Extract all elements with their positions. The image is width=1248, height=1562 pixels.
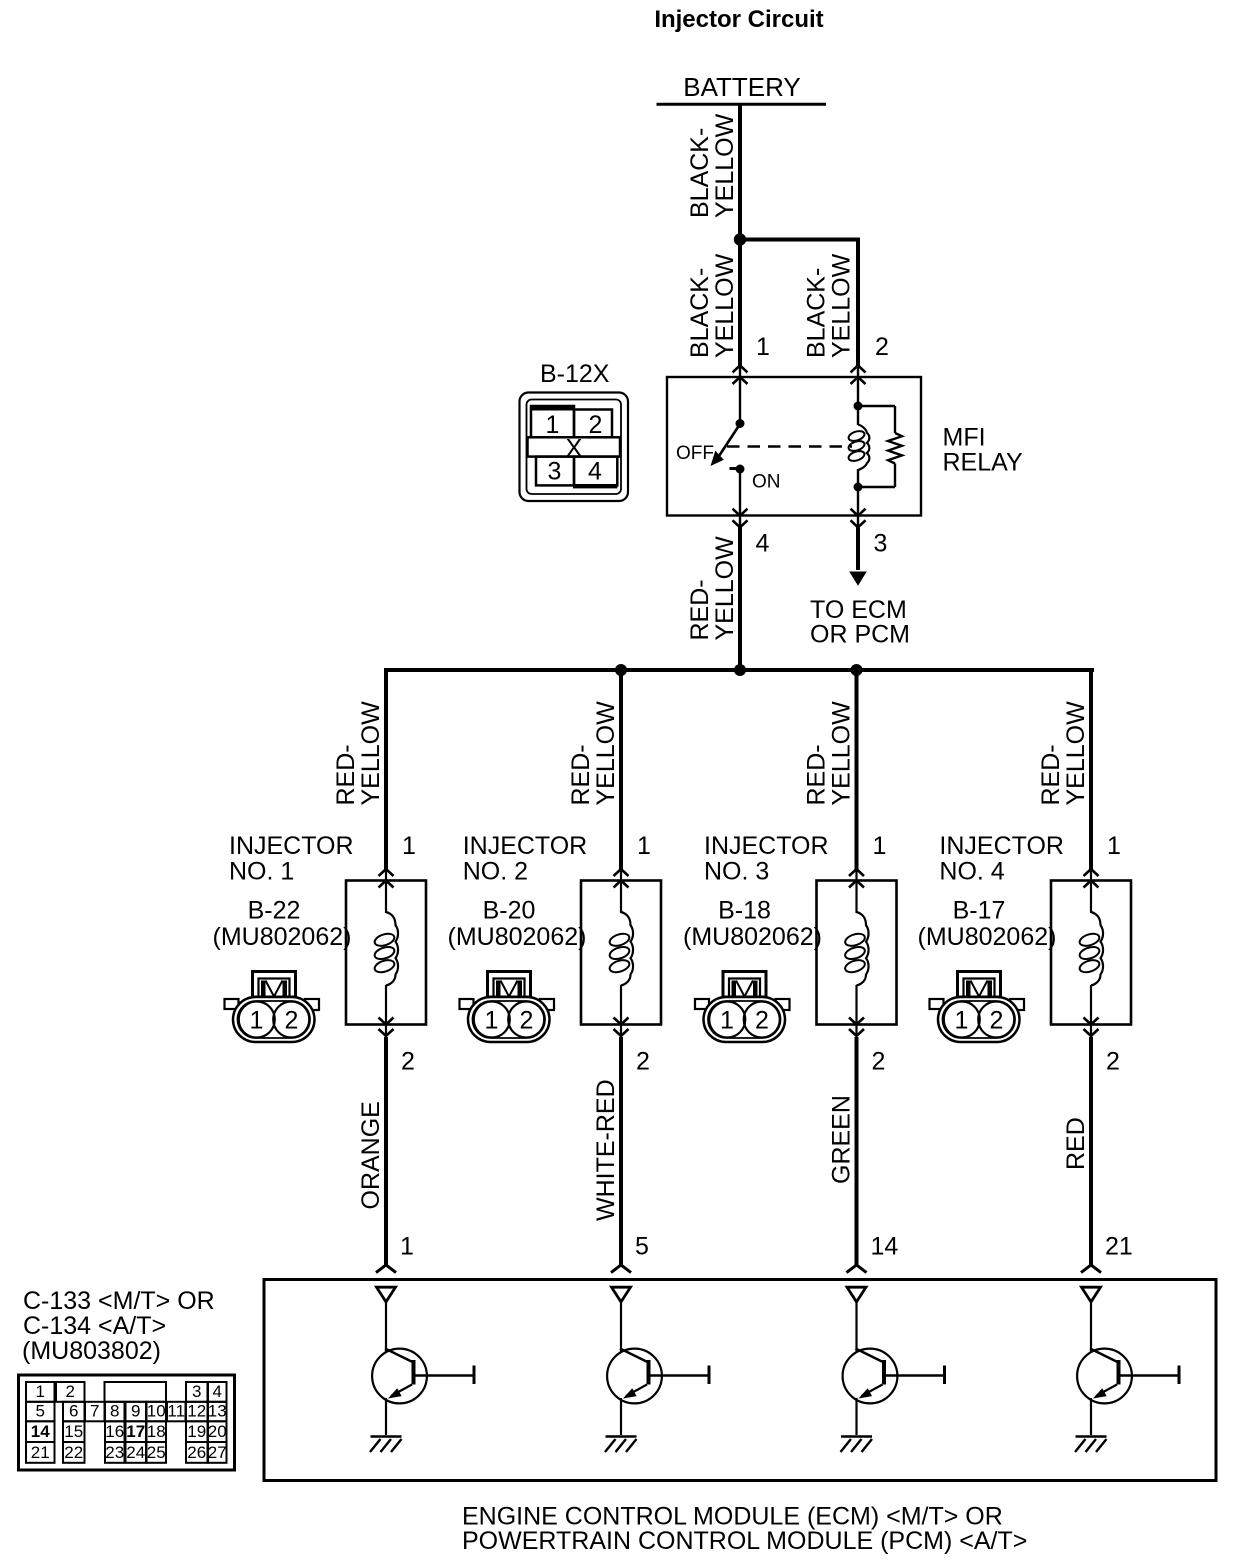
pin number 1 (injector No.1) — [402, 832, 416, 860]
connector B-12X cavity 2 — [574, 410, 612, 440]
svg-text:2: 2 — [589, 411, 603, 439]
svg-text:21: 21 — [31, 1443, 50, 1462]
svg-text:1: 1 — [1107, 832, 1121, 860]
svg-text:GREEN: GREEN — [828, 1095, 856, 1184]
svg-text:1: 1 — [546, 411, 560, 439]
arrowheads into injector No.4 — [1084, 869, 1099, 888]
svg-text:3: 3 — [874, 530, 888, 558]
svg-text:9: 9 — [131, 1401, 140, 1420]
svg-text:YELLOW: YELLOW — [592, 701, 620, 806]
driver transistor Q1 — [372, 1301, 474, 1435]
pin number 2 (injector No.2) — [636, 1048, 650, 1076]
ground (transistor Q4 emitter) — [1075, 1437, 1107, 1453]
svg-text:INJECTOR: INJECTOR — [939, 832, 1064, 860]
wire label RED-YELLOW (injector No.3 branch) — [803, 701, 856, 806]
connector B-12X outline — [520, 393, 629, 502]
svg-text:(MU802062): (MU802062) — [683, 923, 822, 951]
svg-text:NO. 3: NO. 3 — [704, 858, 769, 886]
battery terminal line — [657, 103, 827, 106]
svg-text:1: 1 — [485, 1007, 499, 1035]
connector B-22 label — [213, 897, 352, 952]
MFI relay name label — [943, 424, 1023, 477]
injector No.4 coil — [1078, 869, 1103, 1025]
injector No.2 label — [463, 832, 588, 886]
injector No.2 coil — [608, 869, 633, 1025]
driver transistor Q3 — [843, 1301, 945, 1435]
bus junction node (branch 2) — [615, 664, 627, 676]
arrowheads into injector No.1 — [379, 869, 394, 888]
driver transistor Q2 — [607, 1301, 709, 1435]
ECM/PCM module caption — [462, 1503, 1027, 1556]
svg-text:1: 1 — [402, 832, 416, 860]
relay switch pivot node — [736, 419, 745, 428]
svg-text:11: 11 — [167, 1401, 185, 1420]
connector C-133/C-134 label — [22, 1287, 215, 1365]
svg-text:OFF: OFF — [676, 443, 714, 464]
relay coil feed wire — [857, 366, 859, 425]
injector No.4 label — [939, 832, 1064, 886]
svg-text:18: 18 — [147, 1422, 166, 1441]
wire relay pin 3 to ECM/PCM — [856, 528, 860, 571]
connector B-18 label — [683, 897, 822, 952]
wire label BLACK-YELLOW (relay pin 1 branch) — [686, 253, 739, 358]
svg-text:2: 2 — [872, 1048, 886, 1076]
svg-text:14: 14 — [31, 1422, 50, 1441]
pin number 1 (injector No.3) — [873, 832, 887, 860]
injector No.1 label — [229, 832, 354, 886]
relay coil L — [847, 425, 869, 471]
svg-text:C-134 <A/T>: C-134 <A/T> — [23, 1312, 166, 1340]
connector B-18 2-pin face view — [695, 972, 790, 1043]
svg-text:ON: ON — [752, 472, 781, 493]
ground (transistor Q3 emitter) — [841, 1437, 873, 1453]
connector B-22 2-pin face view — [225, 972, 320, 1043]
svg-text:20: 20 — [208, 1422, 227, 1441]
arrowheads out of injector No.2 — [614, 1018, 629, 1038]
svg-text:13: 13 — [208, 1401, 227, 1420]
wire label ORANGE — [357, 1101, 385, 1209]
svg-text:NO. 1: NO. 1 — [229, 858, 294, 886]
svg-text:16: 16 — [105, 1422, 124, 1441]
svg-text:NO. 2: NO. 2 — [463, 858, 528, 886]
connector C-133/C-134 pin layout grid — [19, 1375, 235, 1470]
svg-text:25: 25 — [147, 1443, 166, 1462]
svg-text:7: 7 — [90, 1401, 99, 1420]
svg-text:B-17: B-17 — [953, 897, 1006, 925]
svg-text:2: 2 — [285, 1007, 299, 1035]
svg-text:BLACK-: BLACK- — [803, 268, 831, 358]
svg-text:22: 22 — [64, 1443, 83, 1462]
svg-text:RED-: RED- — [567, 744, 595, 805]
pin number 1 (injector No.2) — [637, 832, 651, 860]
svg-text:4: 4 — [756, 530, 770, 558]
ECM pin number 14 — [871, 1233, 899, 1261]
pin number 2 (injector No.1) — [401, 1048, 415, 1076]
ECM input terminal triangle (pin 21) — [1082, 1287, 1101, 1302]
svg-text:B-18: B-18 — [718, 897, 771, 925]
svg-text:INJECTOR: INJECTOR — [704, 832, 829, 860]
relay coil top node — [854, 402, 863, 411]
svg-text:RED-: RED- — [686, 579, 714, 640]
ground (transistor Q1 emitter) — [370, 1437, 402, 1453]
svg-text:B-22: B-22 — [248, 897, 301, 925]
svg-text:3: 3 — [192, 1382, 201, 1401]
svg-text:10: 10 — [147, 1401, 166, 1420]
junction node splice A — [734, 233, 746, 245]
battery B+ terminal label — [683, 72, 801, 102]
svg-text:1: 1 — [720, 1007, 734, 1035]
ground (transistor Q2 emitter) — [605, 1437, 637, 1453]
wire label RED-YELLOW (relay output) — [686, 536, 739, 641]
pin number 1 (MFI relay) — [756, 333, 770, 361]
svg-text:YELLOW: YELLOW — [828, 253, 856, 358]
wire label GREEN — [828, 1095, 856, 1184]
wire label RED-YELLOW (injector No.2 branch) — [567, 701, 620, 806]
svg-text:2: 2 — [401, 1048, 415, 1076]
svg-text:21: 21 — [1105, 1233, 1133, 1261]
svg-text:5: 5 — [635, 1233, 649, 1261]
svg-text:NO. 4: NO. 4 — [939, 858, 1004, 886]
arrowhead at ECM pin 14 — [847, 1265, 867, 1273]
svg-text:INJECTOR: INJECTOR — [229, 832, 354, 860]
svg-text:8: 8 — [110, 1401, 119, 1420]
ECM pin number 21 — [1105, 1233, 1133, 1261]
svg-text:1: 1 — [637, 832, 651, 860]
svg-text:YELLOW: YELLOW — [711, 536, 739, 641]
svg-text:WHITE-RED: WHITE-RED — [592, 1079, 620, 1221]
relay switch OFF label — [676, 443, 714, 464]
arrowheads out of relay pin 3 — [851, 509, 866, 528]
svg-text:6: 6 — [69, 1401, 78, 1420]
wire relay pin 4 to bus (RED-YELLOW) — [738, 528, 742, 673]
title: Injector Circuit — [654, 6, 823, 33]
pin number 2 (MFI relay) — [875, 333, 889, 361]
arrowhead at ECM pin 21 — [1081, 1265, 1101, 1273]
pin number 3 (MFI relay) — [874, 530, 888, 558]
svg-text:YELLOW: YELLOW — [711, 253, 739, 358]
wire bus to injector No.4 (RED-YELLOW) — [1089, 668, 1093, 870]
connector B-12X label — [540, 360, 610, 388]
wire injector No.1 to ECM (ORANGE) — [384, 1037, 388, 1265]
svg-text:2: 2 — [1106, 1048, 1120, 1076]
svg-text:B-12X: B-12X — [540, 360, 610, 388]
wire injector No.3 to ECM (GREEN) — [855, 1037, 859, 1265]
connector B-12X cavity 3 — [536, 457, 574, 486]
relay switch common wire — [739, 366, 741, 424]
relay coil bottom node — [854, 483, 863, 492]
svg-text:2: 2 — [755, 1007, 769, 1035]
arrowheads into relay pin 2 — [851, 365, 866, 384]
wire junction to MFI relay pin 2 — [740, 238, 858, 367]
relay coil bottom wire — [857, 469, 859, 516]
svg-text:23: 23 — [105, 1443, 124, 1462]
connector B-12X cavity 4 — [573, 457, 617, 489]
svg-text:(MU802062): (MU802062) — [918, 923, 1057, 951]
net label TO ECM OR PCM — [810, 596, 910, 649]
ECM input terminal triangle (pin 14) — [847, 1287, 866, 1302]
wire bus to injector No.2 (RED-YELLOW) — [619, 668, 623, 870]
svg-text:1: 1 — [400, 1233, 414, 1261]
arrowheads into injector No.3 — [849, 869, 864, 888]
svg-text:14: 14 — [871, 1233, 899, 1261]
pin number 2 (injector No.3) — [872, 1048, 886, 1076]
svg-text:19: 19 — [187, 1422, 206, 1441]
svg-text:RED-: RED- — [332, 744, 360, 805]
svg-text:RED: RED — [1062, 1117, 1090, 1170]
arrowheads out of injector No.4 — [1084, 1018, 1099, 1038]
svg-text:2: 2 — [66, 1382, 75, 1401]
wire label WHITE-RED — [592, 1079, 620, 1221]
driver transistor Q4 — [1077, 1301, 1179, 1435]
svg-text:2: 2 — [875, 333, 889, 361]
bus junction node (branch 3) — [851, 664, 863, 676]
svg-text:RED-: RED- — [1037, 744, 1065, 805]
svg-text:(MU802062): (MU802062) — [448, 923, 587, 951]
svg-text:BATTERY: BATTERY — [683, 72, 801, 102]
ECM input terminal triangle (pin 5) — [612, 1287, 631, 1302]
svg-text:1: 1 — [873, 832, 887, 860]
injector No.3 body — [817, 881, 897, 1025]
svg-text:15: 15 — [64, 1422, 83, 1441]
wire injector No.2 to ECM (WHITE-RED) — [619, 1037, 623, 1265]
relay actuation dashed link — [727, 445, 852, 447]
arrowhead to ECM or PCM — [849, 572, 867, 586]
svg-text:MFI: MFI — [943, 424, 986, 452]
ECM pin number 5 — [635, 1233, 649, 1261]
connector B-12X key band — [528, 435, 621, 463]
arrowheads out of injector No.3 — [849, 1018, 864, 1038]
arrowhead at ECM pin 1 — [376, 1265, 396, 1273]
svg-text:1: 1 — [36, 1382, 45, 1401]
svg-text:26: 26 — [187, 1443, 206, 1462]
injector No.1 coil — [373, 869, 398, 1025]
wire injector No.4 to ECM (RED) — [1089, 1037, 1093, 1265]
svg-text:BLACK-: BLACK- — [686, 268, 714, 358]
wire battery to junction (BLACK-YELLOW) — [738, 104, 742, 241]
svg-text:YELLOW: YELLOW — [1062, 701, 1090, 806]
svg-text:5: 5 — [36, 1401, 45, 1420]
injector No.1 body — [346, 881, 426, 1025]
relay resistor R (parallel) — [858, 406, 902, 487]
svg-text:4: 4 — [588, 458, 602, 486]
injector No.2 body — [581, 881, 661, 1025]
wire label RED — [1062, 1117, 1090, 1170]
pin number 1 (injector No.4) — [1107, 832, 1121, 860]
wire label RED-YELLOW (injector No.1 branch) — [332, 701, 385, 806]
bus wire (RED-YELLOW distribution) — [384, 668, 1094, 672]
wire label BLACK-YELLOW (relay pin 2 branch) — [803, 253, 856, 358]
svg-text:YELLOW: YELLOW — [711, 113, 739, 218]
wire label BLACK-YELLOW (battery feed) — [686, 113, 739, 218]
connector B-17 label — [918, 897, 1057, 952]
bus junction node (relay feed) — [734, 664, 746, 676]
relay switch ON contact — [730, 465, 745, 474]
arrowheads into relay pin 1 — [733, 365, 748, 384]
arrowheads into injector No.2 — [614, 869, 629, 888]
svg-text:1: 1 — [756, 333, 770, 361]
svg-text:RED-: RED- — [803, 744, 831, 805]
svg-text:Injector Circuit: Injector Circuit — [654, 6, 823, 33]
relay switch output wire — [739, 469, 741, 516]
svg-text:(MU803802): (MU803802) — [22, 1337, 161, 1365]
svg-text:(MU802062): (MU802062) — [213, 923, 352, 951]
connector B-20 2-pin face view — [460, 972, 555, 1043]
svg-text:2: 2 — [990, 1007, 1004, 1035]
arrowheads out of relay pin 4 — [733, 509, 748, 528]
pin number 4 (MFI relay) — [756, 530, 770, 558]
wire junction to MFI relay pin 1 — [738, 240, 742, 367]
ECM input terminal triangle (pin 1) — [377, 1287, 396, 1302]
svg-text:ORANGE: ORANGE — [357, 1101, 385, 1209]
wire label RED-YELLOW (injector No.4 branch) — [1037, 701, 1090, 806]
connector B-17 2-pin face view — [930, 972, 1025, 1043]
svg-text:INJECTOR: INJECTOR — [463, 832, 588, 860]
svg-text:27: 27 — [208, 1443, 227, 1462]
svg-text:OR PCM: OR PCM — [810, 621, 910, 649]
pin number 2 (injector No.4) — [1106, 1048, 1120, 1076]
svg-text:RELAY: RELAY — [943, 449, 1023, 477]
MFI relay box — [667, 377, 921, 516]
injector No.3 label — [704, 832, 829, 886]
svg-text:3: 3 — [548, 458, 562, 486]
svg-text:1: 1 — [955, 1007, 969, 1035]
svg-text:C-133 <M/T> OR: C-133 <M/T> OR — [23, 1287, 215, 1315]
svg-text:YELLOW: YELLOW — [357, 701, 385, 806]
svg-text:YELLOW: YELLOW — [828, 701, 856, 806]
svg-text:1: 1 — [250, 1007, 264, 1035]
arrowheads out of injector No.1 — [379, 1018, 394, 1038]
connector B-20 label — [448, 897, 587, 952]
svg-text:B-20: B-20 — [483, 897, 536, 925]
svg-text:2: 2 — [636, 1048, 650, 1076]
svg-text:2: 2 — [520, 1007, 534, 1035]
arrowhead at ECM pin 5 — [611, 1265, 631, 1273]
wire bus to injector No.1 (RED-YELLOW) — [384, 668, 388, 870]
injector No.3 coil — [844, 869, 869, 1025]
wire bus to injector No.3 (RED-YELLOW) — [855, 668, 859, 870]
svg-text:BLACK-: BLACK- — [686, 128, 714, 218]
ECM pin number 1 — [400, 1233, 414, 1261]
svg-text:17: 17 — [126, 1422, 145, 1441]
injector No.4 body — [1051, 881, 1131, 1025]
svg-text:12: 12 — [187, 1401, 206, 1420]
connector B-12X cavity 1 — [530, 406, 575, 439]
svg-text:4: 4 — [213, 1382, 222, 1401]
relay switch ON label — [752, 472, 781, 493]
svg-text:POWERTRAIN CONTROL MODULE (PCM: POWERTRAIN CONTROL MODULE (PCM) <A/T> — [462, 1527, 1027, 1555]
ECM/PCM module box — [264, 1280, 1216, 1481]
svg-text:24: 24 — [126, 1443, 145, 1462]
relay switch blade (to OFF) — [711, 424, 741, 466]
